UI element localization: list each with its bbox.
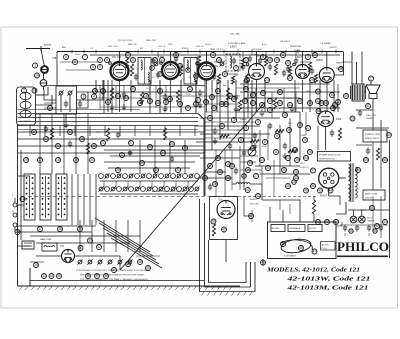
wire lm ext4 [88,152,205,154]
node x8 [58,227,63,232]
node p5 [304,188,309,193]
node lm8 [74,158,79,163]
svg-text:18: 18 [283,113,287,117]
node t10 [268,58,273,63]
resistor R11 [140,92,143,104]
wire x v338 [337,84,339,112]
node 14 [35,73,40,78]
node t20 [126,53,131,58]
node u0 [93,89,98,94]
resistor R13 [226,88,229,100]
svg-text:46: 46 [281,242,285,246]
wire box drop [225,240,227,263]
capacitor C21 [228,144,232,146]
gnd marks band [123,104,125,107]
capacitor C32 [44,127,48,129]
svg-text:6K6GT: 6K6GT [330,47,337,49]
wire lamp leads [353,210,355,216]
node u19 [316,99,321,104]
svg-text:FREQUENCY RANGES SEE ALIGNMENT: FREQUENCY RANGES SEE ALIGNMENT PROCEDURE… [80,274,145,277]
svg-text:9: 9 [235,66,237,70]
svg-text:47: 47 [249,214,253,218]
svg-text:6: 6 [74,60,76,64]
node r7a [242,174,247,179]
svg-text:19: 19 [268,108,272,112]
node u3 [158,89,163,94]
capacitor C13 [234,95,238,97]
node m10 [274,150,279,155]
node u4 [188,87,193,92]
wire right col v2 [389,140,391,258]
osc coil can [226,54,240,71]
node n1 [211,219,216,224]
wire bus lines [18,113,199,115]
resistor R23 [275,129,284,132]
svg-text:19: 19 [74,158,78,162]
svg-text:66: 66 [383,158,387,162]
node p3 [318,188,323,193]
wire speaker leads [370,82,372,86]
node y10 [216,156,221,161]
resistor R26 [273,98,276,109]
phono sub box 3 [308,225,322,232]
node 66 [383,158,388,163]
node 10 [32,88,37,93]
node r6a [150,66,155,71]
node m15 [303,138,308,143]
node u6 [244,87,249,92]
node x7 [38,227,43,232]
node 57a [311,168,316,173]
svg-text:14: 14 [68,130,72,134]
node u2 [131,87,136,92]
wire mid h fill4 [240,155,258,157]
phono unit box [268,222,337,259]
tube V3 2nd IF 7B7 [198,63,215,80]
node t1 [105,58,110,63]
tube V1 converter XXL [111,62,129,80]
node x16 [286,184,291,189]
node m5 [239,138,244,143]
node x11 [366,104,371,109]
wire mr h1 [236,87,300,89]
wire plug leads [336,222,342,226]
svg-text:53: 53 [351,117,355,121]
svg-text:(500 M): (500 M) [365,198,372,200]
svg-text:DIODE: DIODE [250,54,257,56]
node y7 [220,102,225,107]
svg-text:9: 9 [99,65,101,69]
node m12 [260,158,265,163]
svg-text:1 MEG: 1 MEG [240,119,247,121]
node m18 [268,108,273,113]
svg-text:58: 58 [212,106,216,110]
capacitor C31 [170,157,174,159]
node m14 [298,123,303,128]
wire left boundary [17,124,19,286]
svg-text:16: 16 [217,58,221,62]
node t12 [286,61,291,66]
gnd mid [214,138,216,141]
node t4 [131,58,136,63]
padder C3 [64,102,68,104]
wire mid verticals [204,80,206,196]
node t24 [281,53,286,58]
node x10 [344,94,349,99]
svg-text:45: 45 [298,99,302,103]
coupling coil L2 [40,80,47,87]
wire mid fill v [259,130,261,166]
wire tband fill1 [60,61,100,63]
node 56a [316,109,321,114]
wire ml h4 [108,167,190,169]
svg-text:16: 16 [92,144,96,148]
wire out vert2 [356,62,358,84]
node ph1 [281,242,286,247]
node lm7 [56,158,61,163]
node y3 [83,55,88,60]
svg-text:8: 8 [187,68,189,72]
svg-text:49: 49 [146,266,150,270]
node u25 [116,94,121,99]
svg-text:2: 2 [221,124,223,128]
phono motor [280,237,312,254]
svg-text:42: 42 [268,99,272,103]
wire dashed run [208,196,317,198]
wire field coil lead [356,103,373,110]
svg-text:3: 3 [83,95,85,99]
node bl8 [104,274,109,279]
capacitor C20 [213,129,217,131]
svg-text:13: 13 [48,106,52,110]
node ph3 [299,246,304,251]
power transformer T1 [350,163,352,202]
svg-text:455KC: 455KC [205,44,212,46]
svg-text:51: 51 [261,91,265,95]
svg-text:18: 18 [56,158,60,162]
node y4 [223,72,228,77]
wire mr h2 [205,111,236,113]
wire bottom border [18,285,241,287]
node l1 [20,197,25,202]
node ml0 [101,141,106,146]
wire wafer verts [71,174,73,225]
cluster t1t2 c [154,62,158,66]
wire right boundary [361,52,363,85]
svg-text:27: 27 [129,141,133,145]
svg-text:INVERTER: INVERTER [290,46,301,48]
capacitor Cy1 [242,151,246,153]
tube V10 7C6 [217,201,235,219]
svg-text:BASS COMP.: BASS COMP. [365,193,378,196]
svg-text:44: 44 [288,103,292,107]
svg-text:50-60 CY: 50-60 CY [300,167,309,169]
node m24 [282,168,287,173]
svg-text:GN 6J5GT: GN 6J5GT [280,41,291,43]
capacitor C4 [78,102,82,104]
trimmer C1 [59,91,63,95]
node t23 [261,55,266,60]
node u5 [216,89,221,94]
svg-text:32: 32 [188,87,192,91]
wire top rail [57,51,343,53]
node t8 [217,58,222,63]
cluster t1t2 more [125,58,128,68]
svg-text:31: 31 [330,93,334,97]
phono jack J3 [13,223,17,227]
node t17 [265,78,270,83]
node t9 [244,58,249,63]
svg-text:7: 7 [84,55,86,59]
svg-text:23: 23 [242,174,246,178]
svg-text:52: 52 [278,90,282,94]
node z2 [373,229,377,233]
node m8 [275,134,280,139]
svg-text:17: 17 [38,158,42,162]
node ph4 [261,260,266,265]
svg-text:LOW FREQ. AMP.: LOW FREQ. AMP. [228,42,246,45]
svg-text:220K: 220K [186,94,191,96]
capacitor C23 [268,124,272,126]
wire mid right v [299,112,301,160]
node t21 [174,53,179,58]
svg-text:31: 31 [176,168,180,172]
node u21 [333,103,338,108]
node y1 [64,55,69,60]
wire rail riser left [56,52,58,87]
svg-text:46: 46 [286,184,290,188]
svg-text:PART OF 8-2: PART OF 8-2 [210,48,224,51]
resistor R24 [288,149,297,152]
wire u fill2 [44,102,56,104]
node u17 [298,99,303,104]
node x15 [294,176,299,181]
node t15 [369,76,374,81]
node x19 [146,266,151,271]
svg-text:19: 19 [164,100,168,104]
svg-text:56: 56 [168,97,172,101]
svg-text:20: 20 [90,158,94,162]
nested corner inner [209,240,247,283]
svg-text:18: 18 [268,58,272,62]
svg-text:34: 34 [50,274,54,278]
chassis hatch bottom [19,287,22,291]
wire u fill1 [205,95,240,97]
node t3 [98,65,103,70]
svg-text:5: 5 [257,120,259,124]
node y15 [164,100,169,105]
wire bottom border 2 [30,280,205,282]
svg-text:22: 22 [120,153,124,157]
wire lm ext3 [96,145,205,147]
svg-text:12: 12 [228,94,232,98]
node u13 [260,103,265,108]
svg-text:12: 12 [286,156,290,160]
top band fill 4 [300,61,310,63]
node ml7 [170,142,175,147]
svg-text:33: 33 [331,106,335,110]
svg-text:41: 41 [246,188,250,192]
wire mid h4 [196,141,250,143]
svg-text:ANT: ANT [62,46,67,49]
node x12 [375,224,380,229]
node ml3 [161,151,166,156]
switch wafer S3 [56,174,67,220]
capacitor row above philco [343,226,347,228]
node x1 [330,93,335,98]
svg-text:36: 36 [226,176,230,180]
node m13 [248,161,253,166]
antenna shield box [56,86,77,114]
wire lm h1 [18,131,101,133]
svg-text:31: 31 [88,239,92,243]
svg-text:1: 1 [209,116,211,120]
svg-text:33: 33 [42,274,46,278]
tube V8 rectifier 6X5GT [319,168,339,188]
pilot lamp P1 [350,216,357,223]
loudspeaker [366,85,380,94]
wire mid h1 [200,117,280,119]
capacitor C30 [128,151,132,153]
node x3 [331,106,336,111]
capacitor C24 [283,144,287,146]
svg-text:22: 22 [194,102,198,106]
node ml5 [140,161,145,166]
node bl6 [86,274,91,279]
svg-text:I.F.: I.F. [188,77,191,79]
node x13 [383,220,388,225]
resistor R21 [220,134,229,137]
wire under band h2 [240,83,330,85]
resistor R10 [110,88,113,100]
capacitor C12 [198,91,202,93]
svg-text:43: 43 [383,220,387,224]
wire right col v1 [372,110,374,130]
svg-text:26: 26 [140,161,144,165]
node u23 [261,91,266,96]
svg-text:42-1013W, Code 121: 42-1013W, Code 121 [286,276,370,283]
tube V2 1st IF 7B7 [162,62,179,79]
node y12 [246,168,251,173]
wire mid h8 [255,165,300,167]
svg-text:CONDENSER 21 IN USE ONLY ON SH: CONDENSER 21 IN USE ONLY ON SHORT-WAVE B… [76,269,151,272]
svg-text:13: 13 [56,144,60,148]
node 53a [350,116,355,121]
svg-text:39: 39 [78,227,82,231]
wire gap fill r1 [342,61,352,63]
svg-text:25: 25 [310,78,314,82]
node r6b [158,72,163,77]
svg-text:32: 32 [97,245,101,249]
svg-text:14: 14 [35,74,39,78]
node y6 [210,95,215,100]
tube V7 41 [318,111,334,127]
osc padder cluster [232,59,236,61]
node t7 [178,64,183,69]
svg-text:24: 24 [288,76,292,80]
svg-text:GRAY: GRAY [336,62,343,65]
node u1 [101,89,106,94]
top band fill 2 [226,73,238,75]
svg-text:42-1013M, Code 121: 42-1013M, Code 121 [286,285,368,292]
wire left low h2 [18,231,93,233]
capacitor C11 [163,95,167,97]
svg-text:2: 2 [23,89,25,93]
wire lm h4 [18,152,93,154]
node 61a [370,206,375,211]
top band fill 1 [210,65,218,67]
wire mid v3 [273,160,275,196]
svg-text:58: 58 [311,184,315,188]
node 60a [356,168,361,173]
node t11 [275,58,280,63]
IF transformer Z1 [138,58,151,85]
svg-text:A.V.C.: A.V.C. [262,43,268,46]
node u10 [204,100,209,105]
node m19 [295,158,300,163]
capacitor C33 [68,142,72,144]
padder row B [99,187,103,191]
node m3 [244,126,249,131]
trimmer C2 [68,91,72,95]
svg-text:13: 13 [160,58,164,62]
node t25 [306,55,311,60]
node y13 [254,174,259,179]
tube V6 output 6K6GT [319,68,334,83]
svg-text:35: 35 [213,182,217,186]
svg-text:43: 43 [318,189,322,193]
capacitor C22 [253,134,257,136]
svg-text:7: 7 [159,72,161,76]
svg-text:MODELS, 42-1012, Code 121: MODELS, 42-1012, Code 121 [266,267,360,274]
resistor R43 [376,148,379,160]
capacitor C41 [366,149,370,151]
svg-text:29: 29 [24,158,28,162]
node u29 [178,102,183,107]
cluster t3t4 parts [217,74,220,84]
svg-text:7: 7 [127,53,129,57]
svg-text:PLUG: PLUG [322,248,328,250]
svg-text:48: 48 [324,101,328,105]
node ml6 [129,141,134,146]
node lm2 [56,144,61,149]
svg-text:29: 29 [116,168,120,172]
nested corner outer [200,199,256,292]
svg-text:6K6GT: 6K6GT [316,60,324,62]
svg-text:50: 50 [349,229,353,233]
svg-text:10: 10 [287,128,291,132]
node m25 [294,170,299,175]
svg-text:55: 55 [320,101,324,105]
wire phono left leads [244,197,252,217]
svg-text:4: 4 [212,53,214,57]
svg-text:44: 44 [329,189,333,193]
node ml10 [176,168,181,173]
svg-text:57: 57 [178,102,182,106]
svg-text:LAMPS: LAMPS [367,220,375,223]
tone network box A [363,130,387,142]
svg-text:20: 20 [106,100,110,104]
node m4 [256,120,261,125]
wire row drops [103,181,105,189]
node lm0 [32,130,37,135]
svg-text:I.F.: I.F. [152,77,155,79]
wire ml h3 [104,161,195,163]
svg-text:20: 20 [295,158,299,162]
wire mid h7 [244,97,300,99]
node u18 [308,101,313,106]
svg-text:POWER SWITCH ON: POWER SWITCH ON [319,155,341,157]
